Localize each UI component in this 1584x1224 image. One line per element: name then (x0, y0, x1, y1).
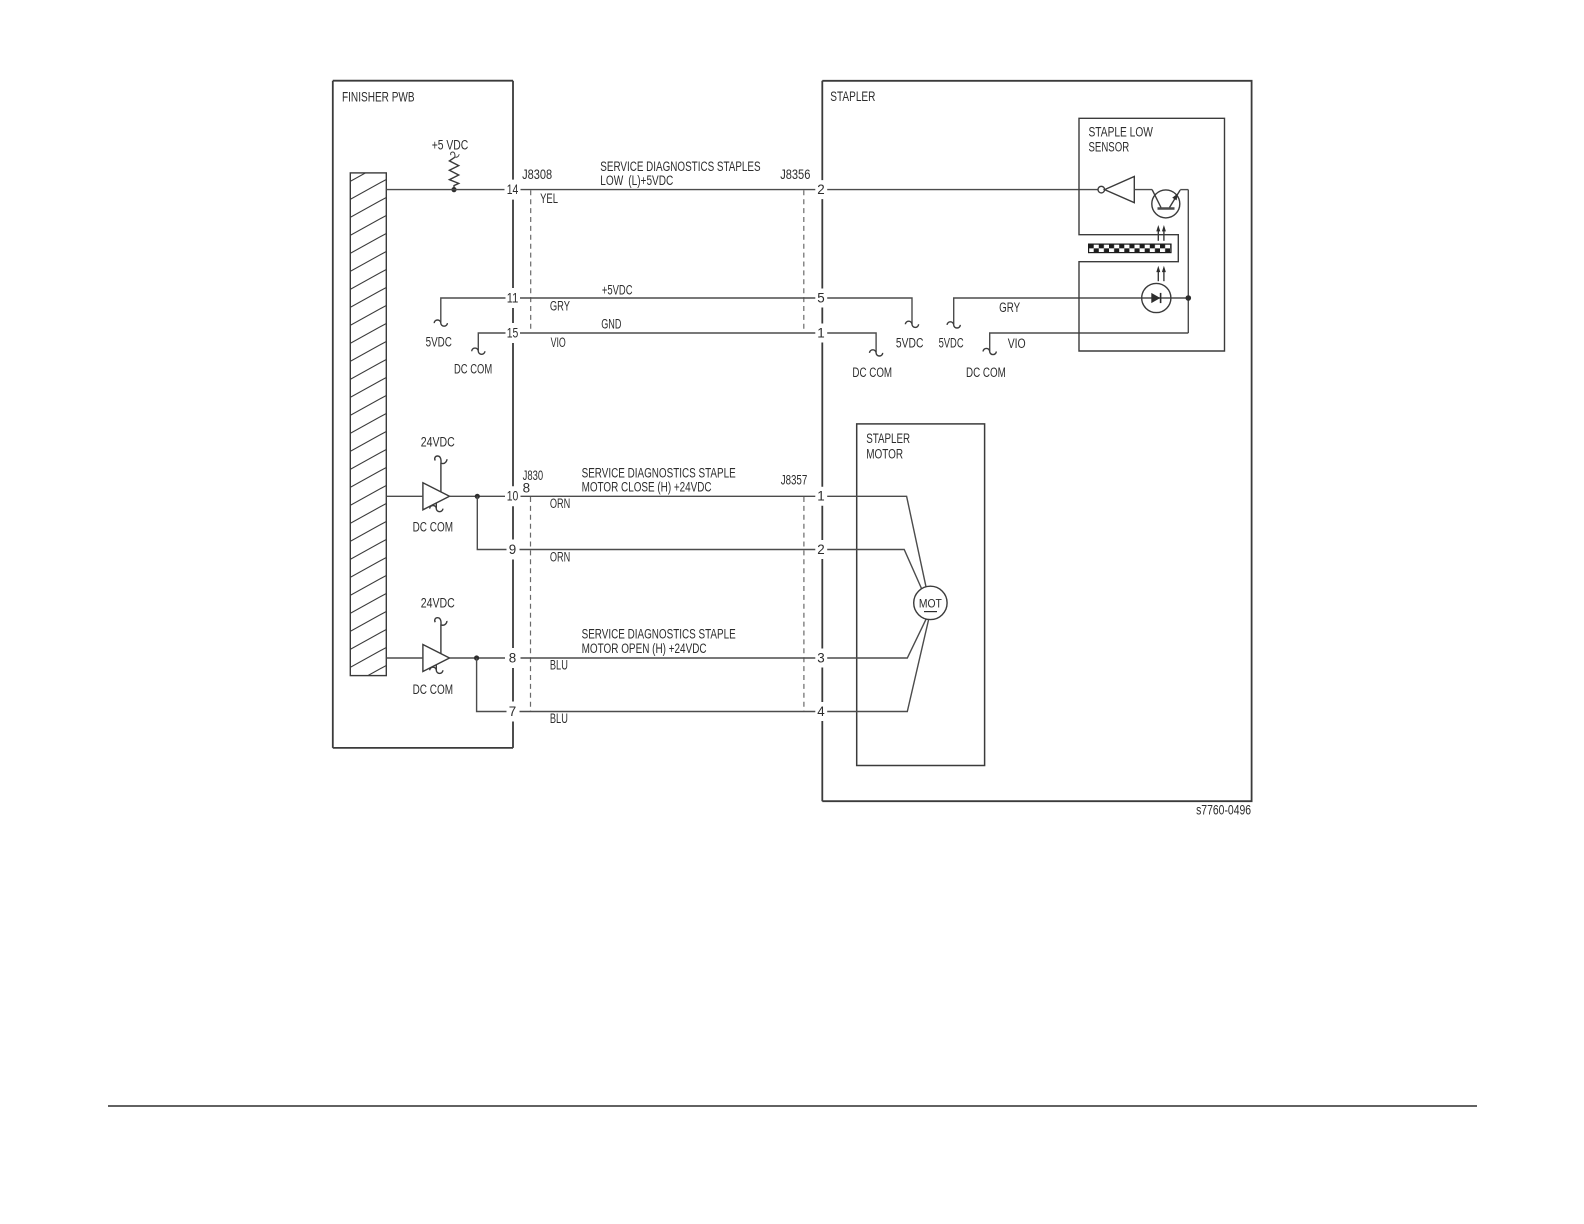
wire driver 2 to pin 8 (450, 657, 506, 659)
svg-text:DC COM: DC COM (454, 361, 492, 376)
svg-text:1: 1 (817, 489, 824, 504)
svg-text:15: 15 (507, 325, 519, 340)
harness dashed line J8357 (803, 497, 805, 712)
svg-text:8: 8 (523, 481, 530, 496)
svg-text:ORN: ORN (550, 496, 570, 511)
LED cathode bar (1160, 293, 1162, 303)
pigtail DC COM (pin 15) (472, 348, 485, 354)
wire pin 1 stub in stapler (827, 333, 876, 352)
svg-text:2: 2 (817, 182, 824, 197)
wire pin 8 to motor pin 3 (521, 657, 816, 659)
motor pin 2 wire (827, 550, 921, 589)
wire pin 11 stub (441, 298, 506, 323)
wire pin 5 stub in stapler (827, 298, 912, 324)
svg-text:ORN: ORN (550, 550, 570, 565)
right rail wire down to ground (1187, 190, 1189, 333)
svg-text:DC COM: DC COM (852, 365, 892, 380)
svg-text:MOT: MOT (919, 596, 943, 610)
wire transistor to right rail (1180, 189, 1188, 191)
driver 2 amplifier triangle (413, 596, 455, 698)
LED diode triangle (1151, 293, 1160, 303)
svg-text:MOTOR: MOTOR (866, 447, 903, 462)
wire pin 2 into stapler (827, 189, 1098, 191)
staple low sensor box with slot notch (1079, 118, 1225, 351)
driver 1 amplifier triangle (413, 435, 455, 535)
wire pin 11 to pin 5 (520, 297, 815, 299)
phototransistor emitter lead with arrow (1170, 190, 1181, 208)
staple cartridge checkered bar (1089, 244, 1171, 253)
wire branch down to pin 9 (477, 496, 506, 549)
LED circle (1142, 283, 1171, 312)
wire board to driver 2 (387, 657, 423, 659)
wire branch down to pin 7 (477, 658, 507, 712)
svg-text:s7760-0496: s7760-0496 (1196, 803, 1251, 818)
motor pin 4 wire (827, 620, 928, 712)
wire pin 14 to pin 2 (521, 189, 816, 191)
svg-text:SERVICE DIAGNOSTICS STAPLE: SERVICE DIAGNOSTICS STAPLE (582, 627, 736, 642)
stapler motor box (857, 424, 985, 766)
motor MOT circle (914, 586, 947, 619)
svg-text:VIO: VIO (1008, 336, 1026, 351)
phototransistor collector lead (1152, 190, 1161, 208)
svg-text:11: 11 (507, 290, 519, 305)
svg-text:STAPLER: STAPLER (830, 89, 875, 104)
svg-text:MOTOR CLOSE (H) +24VDC: MOTOR CLOSE (H) +24VDC (582, 479, 712, 494)
svg-text:10: 10 (507, 489, 519, 504)
svg-text:J8308: J8308 (522, 167, 552, 182)
harness dashed line J8356 (803, 190, 805, 333)
junction dot LED to rail (1186, 295, 1192, 301)
svg-text:3: 3 (817, 650, 824, 665)
svg-text:5VDC: 5VDC (426, 334, 453, 349)
svg-text:MOTOR OPEN (H) +24VDC: MOTOR OPEN (H) +24VDC (582, 641, 707, 656)
svg-text:YEL: YEL (540, 191, 558, 206)
svg-text:2: 2 (817, 542, 824, 557)
wire board to driver 1 (387, 495, 423, 497)
svg-text:+5VDC: +5VDC (602, 282, 633, 297)
DC COM net pigtail to VIO wire (990, 333, 1189, 351)
svg-text:7: 7 (509, 704, 516, 719)
svg-text:GND: GND (601, 316, 621, 331)
wire pin 10 to motor pin 1 (521, 495, 816, 497)
junction dot pin 8 (474, 655, 479, 660)
resistor +5 VDC pull-up (432, 138, 469, 190)
pigtail DC COM (stapler pin 1) (870, 350, 883, 356)
svg-text:FINISHER PWB: FINISHER PWB (342, 90, 415, 105)
wire inverter to phototransistor (1134, 189, 1152, 191)
svg-text:14: 14 (507, 182, 519, 197)
wire driver 1 to pin 10 (450, 495, 506, 497)
phototransistor circle (1152, 190, 1180, 218)
light ray arrows below cartridge (from LED) (1156, 266, 1166, 282)
svg-text:GRY: GRY (999, 300, 1020, 315)
light ray arrows above cartridge (1156, 225, 1166, 241)
harness dashed line J8308 (lower) (530, 497, 532, 712)
junction dot at resistor / wire 14 (451, 187, 456, 192)
svg-text:LOW (L)+5VDC: LOW (L)+5VDC (600, 173, 673, 188)
svg-text:STAPLER: STAPLER (866, 431, 910, 446)
svg-text:BLU: BLU (550, 711, 568, 726)
svg-text:4: 4 (817, 704, 825, 719)
svg-text:5VDC: 5VDC (939, 336, 964, 351)
wire pin 14 (left of number) (387, 189, 505, 191)
svg-text:J8356: J8356 (780, 167, 810, 182)
inverter bubble (1098, 186, 1105, 193)
page footer rule (108, 1105, 1477, 1107)
svg-text:J8357: J8357 (781, 473, 808, 488)
harness dashed line J8308 (530, 190, 532, 333)
finisher PWB board box (333, 81, 513, 748)
wire pin 9 to motor pin 2 (520, 549, 816, 551)
finisher PWB right edge (broken at pins) (512, 81, 514, 748)
svg-text:5: 5 (817, 290, 824, 305)
svg-text:24VDC: 24VDC (421, 596, 455, 611)
svg-text:9: 9 (509, 542, 516, 557)
5VDC net pigtail to GRY wire (954, 298, 1189, 324)
svg-text:DC COM: DC COM (413, 682, 453, 697)
svg-text:5VDC: 5VDC (896, 336, 924, 351)
motor pin 1 wire (827, 496, 926, 587)
svg-text:GRY: GRY (550, 298, 570, 313)
svg-text:SENSOR: SENSOR (1089, 140, 1130, 155)
inverter triangle (1105, 177, 1135, 203)
svg-text:8: 8 (509, 650, 516, 665)
pigtail 5VDC (stapler pin 5) (905, 321, 918, 327)
svg-text:DC COM: DC COM (413, 520, 453, 535)
wire pin 15 stub (478, 333, 505, 351)
stapler box (822, 81, 1251, 801)
junction dot pin 10 (475, 494, 480, 499)
motor pin 3 wire (827, 619, 926, 658)
svg-text:VIO: VIO (551, 335, 566, 350)
wire pin 7 to motor pin 4 (520, 711, 816, 713)
phototransistor base bar (1158, 207, 1175, 209)
MOT underline (924, 611, 937, 613)
wire pin 15 to pin 1 (520, 332, 815, 334)
pigtail 5VDC (pin 11) (434, 320, 447, 326)
svg-text:STAPLE LOW: STAPLE LOW (1089, 125, 1154, 140)
svg-text:1: 1 (817, 325, 824, 340)
stapler box left edge (broken at pins) (821, 81, 823, 801)
PWB ground plane hatched bar (349, 161, 388, 705)
svg-text:24VDC: 24VDC (421, 435, 455, 450)
svg-text:+5 VDC: +5 VDC (432, 138, 469, 153)
svg-text:DC COM: DC COM (966, 365, 1006, 380)
svg-text:BLU: BLU (550, 657, 568, 672)
